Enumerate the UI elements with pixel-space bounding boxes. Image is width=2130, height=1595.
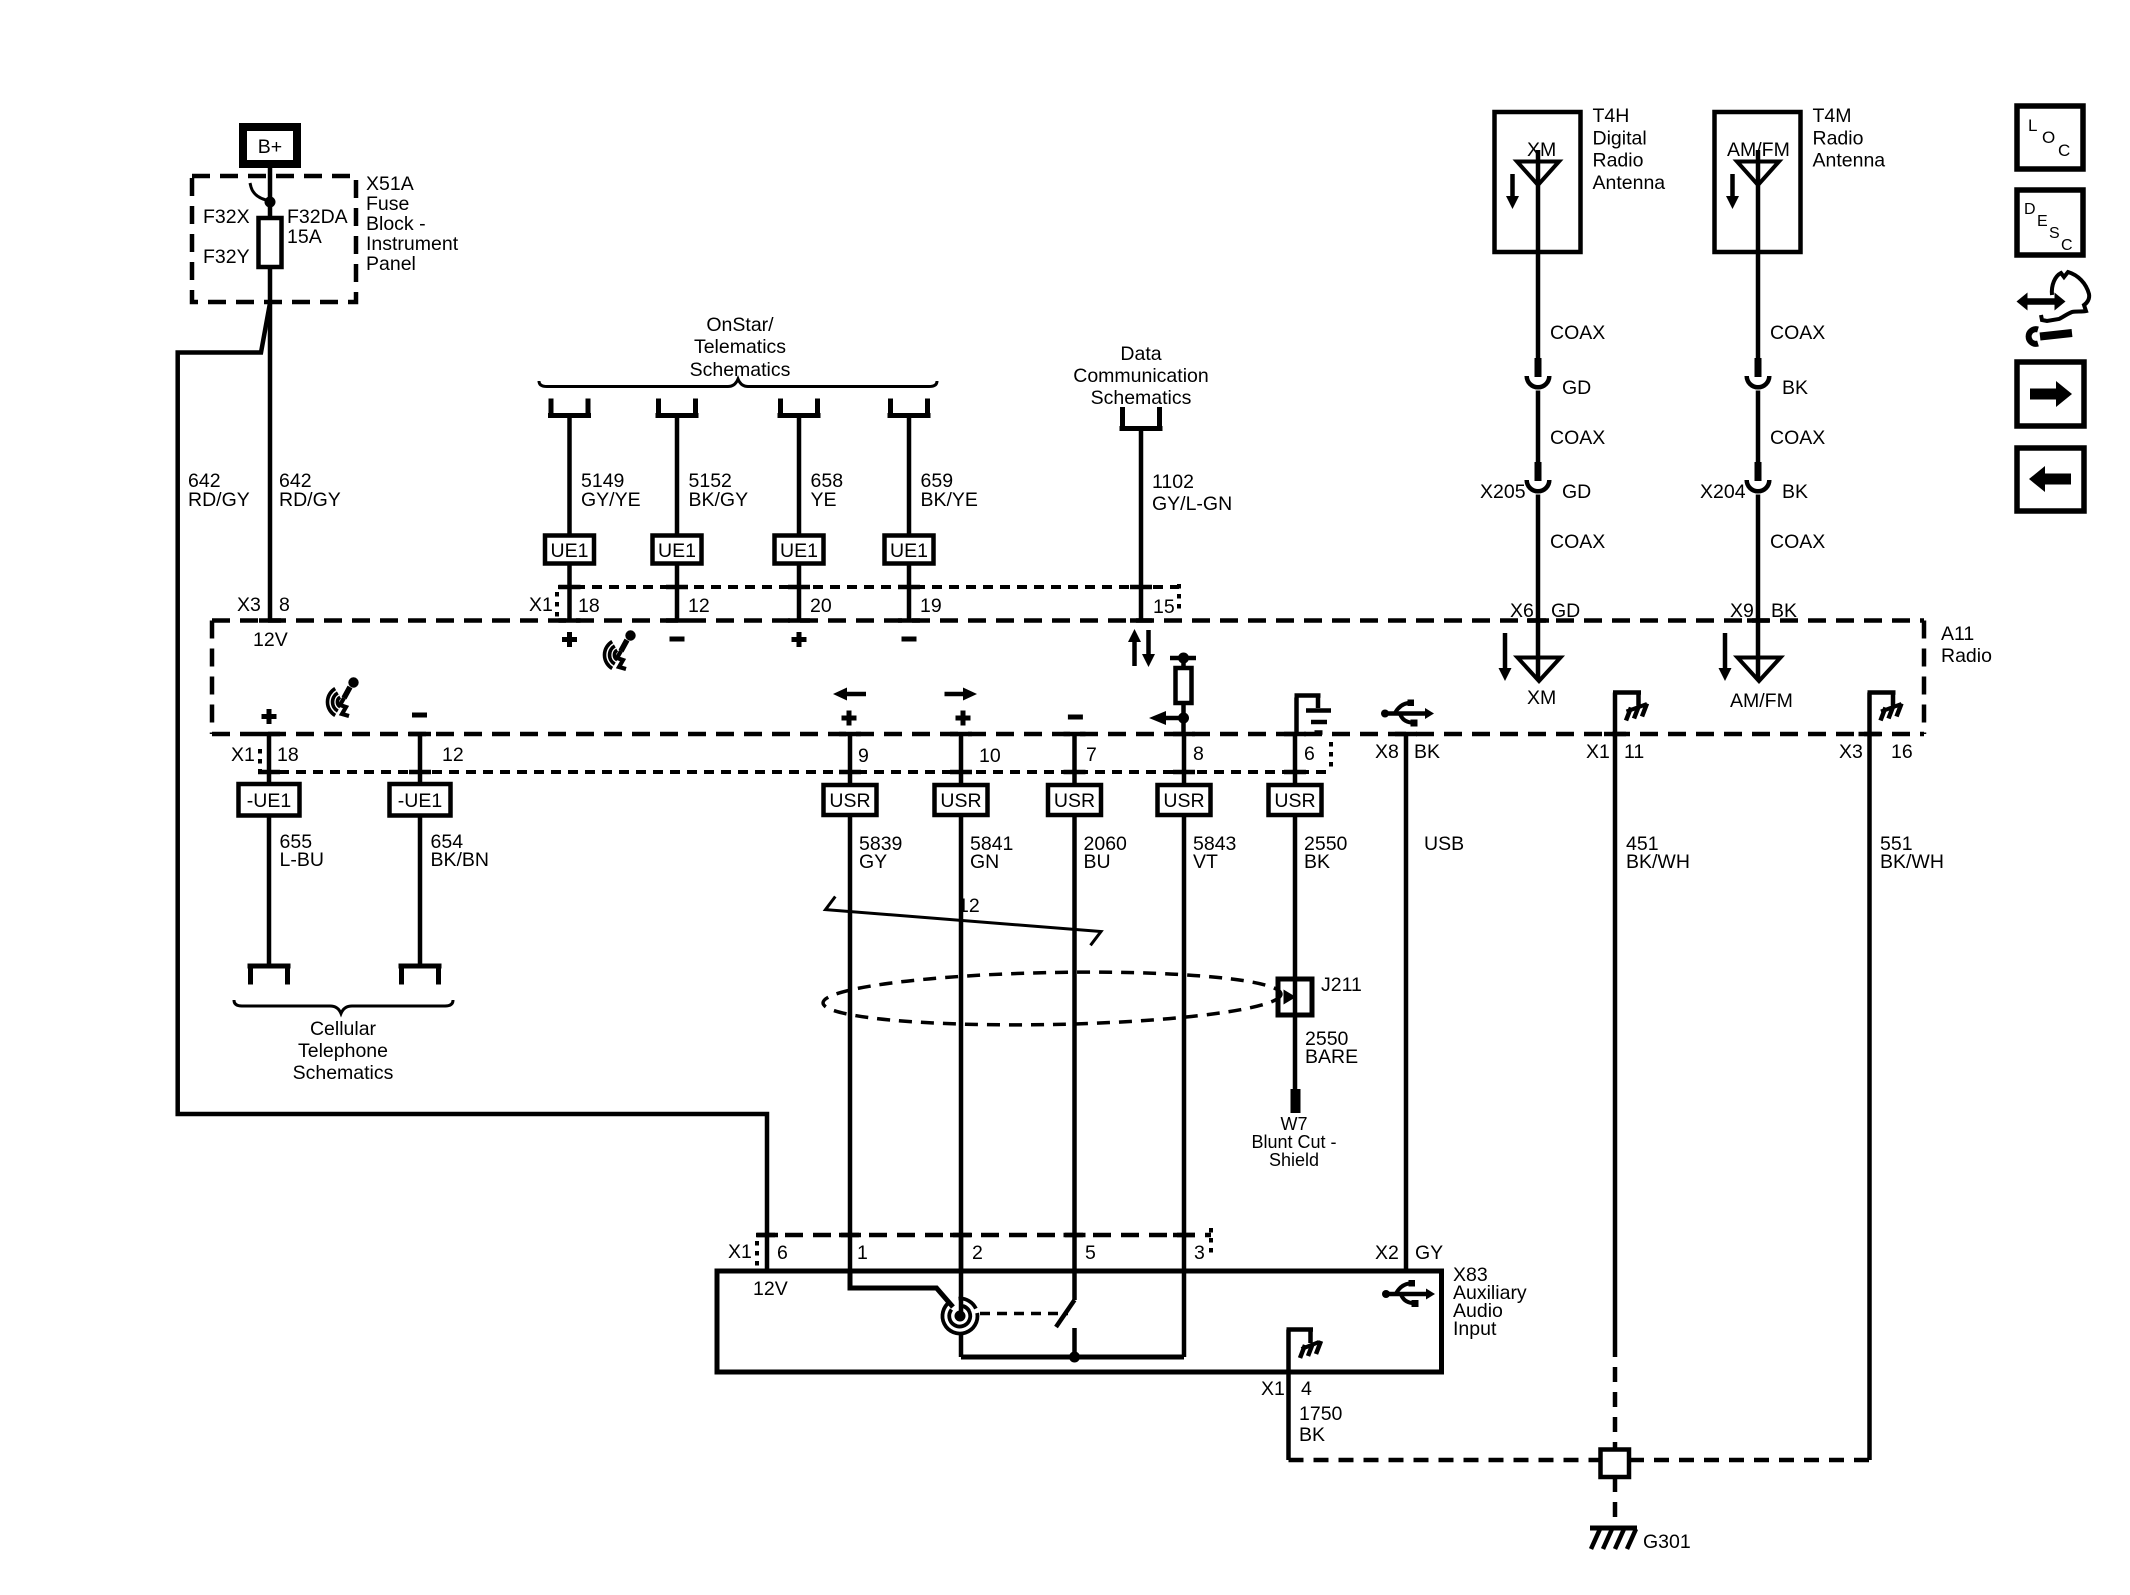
svg-text:Data: Data: [1120, 343, 1161, 365]
svg-text:BK: BK: [1304, 851, 1330, 873]
svg-text:GY/L-GN: GY/L-GN: [1152, 493, 1232, 515]
svg-text:15: 15: [1153, 596, 1175, 618]
pin X1 4 below aux box: [1261, 1378, 1312, 1400]
svg-text:COAX: COAX: [1770, 322, 1825, 344]
svg-text:BK/WH: BK/WH: [1880, 851, 1944, 873]
wire 5152 BK/GY: [677, 415, 748, 536]
wire 451 BK/WH (X1-11 to splice): [1615, 734, 1690, 1450]
wire 5839 GY: [850, 815, 902, 1235]
svg-text:COAX: COAX: [1550, 427, 1605, 449]
antenna symbol XM: [1517, 150, 1559, 252]
svg-text:G301: G301: [1643, 1531, 1691, 1553]
svg-text:BARE: BARE: [1305, 1046, 1358, 1068]
serial data up/down arrows (pin 15): [1128, 629, 1155, 667]
svg-text:5: 5: [1085, 1242, 1096, 1264]
svg-text:2: 2: [972, 1242, 983, 1264]
dashed ground run 1750 to splice: [1289, 1458, 1601, 1463]
inline coax connector (upper): [1527, 358, 1592, 399]
svg-text:19: 19: [920, 595, 942, 617]
aux internal bus wire: [961, 1271, 1184, 1363]
pin X6 GD: [1510, 600, 1580, 622]
svg-text:Telephone: Telephone: [298, 1040, 388, 1062]
ground splice: [1601, 1450, 1630, 1478]
coax wire middle segment: [1538, 391, 1605, 463]
svg-text:Schematics: Schematics: [293, 1062, 394, 1084]
wire radio pin to USR (2060): [1072, 734, 1077, 785]
telephone + polarity (X1-18 bottom): [262, 709, 277, 724]
svg-text:6: 6: [1304, 743, 1315, 765]
wire radio pin to USR (2550): [1293, 734, 1298, 785]
splice pack USR (5839): [824, 785, 877, 815]
svg-text:RD/GY: RD/GY: [188, 489, 250, 511]
svg-text:USB: USB: [1424, 833, 1464, 855]
antenna T4M AM/FM box: [1715, 112, 1801, 252]
junction node in fuse block: [250, 183, 276, 208]
svg-text:O: O: [2042, 128, 2055, 147]
aux internal chassis ground: [1287, 1330, 1322, 1373]
wire 5149 GY/YE: [570, 415, 641, 536]
USB wire X8 to aux X2: [1406, 734, 1464, 1272]
mic + polarity (OnStar 18): [562, 632, 577, 647]
svg-text:Telematics: Telematics: [694, 336, 786, 358]
splice pack -UE1: [239, 784, 300, 816]
svg-text:F32DA: F32DA: [287, 206, 348, 228]
wire 2550 BK: [1295, 815, 1348, 1089]
legend next arrow button: [2017, 362, 2084, 426]
svg-text:Blunt Cut -: Blunt Cut -: [1251, 1132, 1336, 1152]
svg-text:OnStar/: OnStar/: [706, 314, 774, 336]
svg-text:YE: YE: [811, 489, 837, 511]
svg-text:GY: GY: [1415, 1242, 1443, 1264]
svg-text:UE1: UE1: [551, 540, 589, 562]
svg-text:COAX: COAX: [1550, 531, 1605, 553]
svg-text:UE1: UE1: [780, 540, 818, 562]
pin labels X1 18 12 / 9 10 7 8 6 / X8 BK / X1 11 / X3 16: [231, 741, 1913, 767]
splice pack UE1: [775, 536, 824, 564]
XM antenna input symbol inside radio: [1518, 621, 1561, 710]
svg-text:X3: X3: [237, 594, 261, 616]
svg-text:E: E: [2037, 213, 2048, 230]
svg-text:X1: X1: [231, 744, 255, 766]
wire radio pin to USR (5843): [1182, 734, 1187, 785]
svg-text:X1: X1: [728, 1241, 752, 1263]
svg-text:XM: XM: [1527, 687, 1556, 709]
coax wire AM/FM antenna to radio: [1758, 252, 1825, 358]
pull-up resistor + data in arrow (pin 8): [1149, 653, 1196, 735]
wire UE1 to radio pin 12: [666, 564, 710, 621]
svg-text:8: 8: [279, 594, 290, 616]
svg-text:BK/BN: BK/BN: [431, 849, 490, 871]
wire 655 L-BU: [269, 816, 324, 967]
off-page connector to cellular telephone (655): [248, 966, 291, 985]
svg-text:Block -: Block -: [366, 213, 426, 235]
aux box X83: [717, 1271, 1442, 1372]
AM/FM antenna input symbol inside radio: [1730, 621, 1793, 713]
svg-text:9: 9: [858, 745, 869, 767]
twisted pair marker 12: [826, 895, 1102, 945]
aux USB symbol (X2): [1382, 1280, 1435, 1307]
splice pack USR (2060): [1048, 785, 1101, 815]
wire UE1 to radio pin 20: [788, 564, 832, 621]
svg-text:USR: USR: [1274, 790, 1315, 812]
wires radio to aux pins: [850, 1235, 1184, 1271]
inline coax connector (upper): [1747, 358, 1808, 399]
splice pack USR (5841): [935, 785, 988, 815]
svg-text:USR: USR: [1054, 790, 1095, 812]
wire radio pin to USR (5839): [848, 734, 853, 785]
legend LOC button: [2017, 106, 2083, 169]
wire radio to -UE1 (655): [267, 734, 272, 784]
svg-text:1102: 1102: [1152, 471, 1194, 493]
svg-text:BK/GY: BK/GY: [689, 489, 749, 511]
wire 5841 GN: [961, 815, 1013, 1235]
svg-text:BK: BK: [1782, 377, 1808, 399]
microphone icon (OnStar): [604, 630, 635, 669]
svg-text:F32X: F32X: [203, 206, 250, 228]
label X51A Fuse Block - Instrument Panel: [366, 173, 459, 275]
internal earth ground (pin 6 shield): [1295, 696, 1332, 735]
ground G301: [1590, 1528, 1691, 1553]
svg-text:GD: GD: [1562, 377, 1591, 399]
svg-text:COAX: COAX: [1550, 322, 1605, 344]
svg-text:Antenna: Antenna: [1813, 150, 1886, 172]
off-page connector to OnStar/Telematics (wire 5149): [548, 399, 591, 416]
fuse block X51A dashed outline: [192, 176, 356, 302]
svg-text:Fuse: Fuse: [366, 193, 409, 215]
XM input arrow: [1499, 633, 1512, 681]
headphone jack symbol: [942, 1299, 977, 1334]
svg-text:GY/YE: GY/YE: [581, 489, 641, 511]
svg-text:A11: A11: [1941, 623, 1974, 645]
wire 2060 BU: [1075, 815, 1128, 1235]
label X83 Auxiliary Audio Input: [1453, 1264, 1527, 1340]
brace OnStar/Telematics Schematics: [539, 314, 937, 387]
svg-text:L: L: [2028, 116, 2037, 135]
svg-text:12V: 12V: [753, 1278, 788, 1300]
svg-text:X204: X204: [1700, 481, 1746, 503]
svg-text:S: S: [2049, 225, 2060, 242]
svg-text:B+: B+: [258, 136, 282, 158]
svg-text:D: D: [2024, 201, 2036, 218]
pin X3 8 radio: [237, 594, 290, 651]
svg-text:6: 6: [777, 1242, 788, 1264]
svg-text:X205: X205: [1480, 481, 1526, 503]
off-page connector to Data Communication Schematics: [1120, 407, 1163, 429]
svg-text:USR: USR: [1163, 790, 1204, 812]
wire 1102 GY/L-GN: [1130, 428, 1232, 621]
svg-text:18: 18: [578, 595, 600, 617]
off-page connector to OnStar/Telematics (wire 658): [778, 399, 821, 416]
svg-text:Communication: Communication: [1073, 365, 1208, 387]
svg-text:Input: Input: [1453, 1318, 1497, 1340]
connector dotted row below radio: [258, 742, 1331, 776]
splice pack -UE1: [390, 784, 451, 816]
svg-text:7: 7: [1086, 744, 1097, 766]
svg-text:18: 18: [277, 744, 299, 766]
aux pin ticks: [756, 1233, 1195, 1238]
audio right out arrow (pin 10): [945, 688, 978, 726]
svg-text:X1: X1: [529, 594, 553, 616]
wire 1750 BK: [1289, 1372, 1343, 1460]
wire 2550 BARE: [1305, 1028, 1358, 1068]
splice pack USR (5843): [1158, 785, 1211, 815]
brace Cellular Telephone Schematics: [234, 1000, 453, 1084]
svg-text:BK: BK: [1782, 481, 1808, 503]
splice J211: [1278, 974, 1362, 1015]
svg-text:12: 12: [442, 744, 464, 766]
svg-text:J211: J211: [1321, 974, 1362, 996]
wire UE1 to radio pin 18: [559, 564, 600, 621]
coax wire XM antenna to radio: [1538, 252, 1605, 358]
svg-text:Instrument: Instrument: [366, 233, 459, 255]
svg-text:BU: BU: [1084, 851, 1111, 873]
svg-text:F32Y: F32Y: [203, 246, 250, 268]
radio A11 dashed box: [212, 621, 1992, 735]
svg-text:BK/YE: BK/YE: [921, 489, 978, 511]
audio - (pin 7): [1068, 715, 1083, 720]
wire 658 YE: [799, 415, 843, 536]
svg-text:10: 10: [979, 745, 1001, 767]
svg-text:USR: USR: [940, 790, 981, 812]
svg-text:X8: X8: [1375, 741, 1399, 763]
svg-text:-UE1: -UE1: [398, 790, 442, 812]
+ polarity (OnStar 20): [792, 632, 807, 647]
USB symbol (X8): [1381, 700, 1434, 727]
svg-text:4: 4: [1301, 1378, 1312, 1400]
svg-text:W7: W7: [1281, 1114, 1308, 1134]
svg-text:1750: 1750: [1299, 1403, 1343, 1425]
fuse F32DA 15A: [203, 206, 348, 268]
wire B+ to fuse: [268, 164, 273, 220]
svg-text:11: 11: [1624, 741, 1644, 763]
wire radio to -UE1 (654): [418, 734, 423, 784]
signal arrow XM: [1506, 174, 1519, 209]
svg-text:X1: X1: [1261, 1378, 1285, 1400]
antenna symbol AM/FM: [1737, 150, 1779, 252]
svg-text:L-BU: L-BU: [280, 849, 324, 871]
pin 15 radio X1: [1130, 596, 1175, 621]
svg-text:C: C: [2061, 237, 2073, 254]
svg-text:T4H: T4H: [1593, 105, 1630, 127]
wire 5843 VT: [1184, 815, 1236, 1235]
svg-text:Antenna: Antenna: [1593, 172, 1666, 194]
chassis ground X3-16 inside radio: [1868, 693, 1902, 735]
svg-text:RD/GY: RD/GY: [279, 489, 341, 511]
svg-text:Digital: Digital: [1593, 127, 1647, 149]
svg-text:8: 8: [1193, 743, 1204, 765]
svg-text:12V: 12V: [253, 629, 288, 651]
connector X1 dashed row (aux input): [728, 1228, 1211, 1267]
svg-text:GN: GN: [970, 851, 999, 873]
aux pin numbers 6 1 2 5 3 / X2 GY: [777, 1242, 1443, 1264]
telephone - polarity (X1-12 bottom): [412, 713, 427, 718]
legend DESC button: [2017, 190, 2083, 255]
shield ellipse (drain 2550): [823, 968, 1282, 1029]
dashed stub to G301: [1613, 1477, 1618, 1524]
svg-text:X3: X3: [1839, 741, 1863, 763]
svg-text:X2: X2: [1375, 1242, 1399, 1264]
inline coax connector X204: [1700, 462, 1808, 503]
svg-text:Panel: Panel: [366, 253, 416, 275]
svg-text:AM/FM: AM/FM: [1730, 690, 1793, 712]
svg-text:GY: GY: [859, 851, 887, 873]
off-page connector to OnStar/Telematics (wire 659): [888, 399, 931, 416]
label T4H Radio Antenna: [1593, 105, 1666, 194]
inline coax connector X205: [1480, 462, 1591, 503]
wire 654 BK/BN: [420, 816, 489, 967]
coax wire lower segment to radio pin: [1538, 495, 1605, 621]
splice pack UE1: [653, 536, 702, 564]
chassis ground X1-11 inside radio: [1613, 693, 1647, 735]
splice pack USR (2550): [1269, 785, 1322, 815]
svg-text:-UE1: -UE1: [247, 790, 291, 812]
detect switch (pin 5): [980, 1271, 1075, 1357]
AM/FM input arrow: [1719, 633, 1732, 681]
radio bottom pin ticks: [258, 732, 1881, 737]
pin X9 BK: [1730, 600, 1797, 622]
svg-text:1: 1: [857, 1242, 868, 1264]
wire UE1 to radio pin 19: [898, 564, 942, 621]
- polarity (OnStar 19): [902, 637, 917, 642]
off-page connector to cellular telephone (654): [399, 966, 442, 985]
svg-text:GD: GD: [1562, 481, 1591, 503]
connector X1 dotted row (radio top): [529, 584, 1179, 617]
svg-text:Radio: Radio: [1593, 150, 1644, 172]
svg-text:UE1: UE1: [890, 540, 928, 562]
legend diagnostic tool icon: [2017, 272, 2090, 344]
wire 642 RD/GY fuse to radio X3-8: [270, 267, 341, 621]
svg-text:XM: XM: [1527, 139, 1556, 161]
label Data Communication Schematics: [1073, 343, 1208, 409]
coax wire lower segment to radio pin: [1758, 495, 1825, 621]
mic - polarity (OnStar 12): [670, 637, 685, 642]
svg-text:15A: 15A: [287, 226, 322, 248]
splice pack UE1: [885, 536, 934, 564]
legend back arrow button: [2017, 448, 2084, 511]
antenna T4H XM box: [1495, 112, 1581, 252]
svg-text:C: C: [2058, 141, 2070, 160]
svg-text:Shield: Shield: [1269, 1150, 1319, 1170]
label T4M Radio Antenna: [1813, 105, 1886, 172]
svg-text:VT: VT: [1193, 851, 1218, 873]
audio left out arrow (pin 9): [833, 688, 866, 726]
svg-text:X1: X1: [1586, 741, 1610, 763]
microphone icon (cellular): [327, 677, 358, 716]
svg-text:X51A: X51A: [366, 173, 414, 195]
coax wire middle segment: [1758, 391, 1825, 463]
svg-text:UE1: UE1: [658, 540, 696, 562]
svg-text:Cellular: Cellular: [310, 1018, 377, 1040]
svg-text:USR: USR: [829, 790, 870, 812]
wire 642 RD/GY left branch to aux input: [178, 303, 767, 1272]
svg-text:COAX: COAX: [1770, 531, 1825, 553]
svg-text:Schematics: Schematics: [1091, 387, 1192, 409]
svg-text:Radio: Radio: [1813, 127, 1864, 149]
blunt cut W7 shield: [1251, 1089, 1336, 1170]
svg-text:12: 12: [688, 595, 710, 617]
svg-text:BK/WH: BK/WH: [1626, 851, 1690, 873]
svg-text:12: 12: [958, 895, 980, 917]
svg-text:3: 3: [1194, 1242, 1205, 1264]
jack sleeve wire (pin 2): [959, 1235, 964, 1357]
splice pack UE1: [545, 536, 594, 564]
svg-text:COAX: COAX: [1770, 427, 1825, 449]
battery feed B+: [243, 127, 297, 164]
off-page connector to OnStar/Telematics (wire 5152): [656, 399, 699, 416]
svg-text:Schematics: Schematics: [690, 359, 791, 381]
signal arrow AM/FM: [1726, 174, 1739, 209]
wire 551 BK/WH (X3-16 to splice): [1629, 734, 1944, 1460]
svg-text:16: 16: [1891, 741, 1913, 763]
svg-text:Radio: Radio: [1941, 645, 1992, 667]
svg-text:BK: BK: [1414, 741, 1440, 763]
wire radio pin to USR (5841): [959, 734, 964, 785]
svg-text:20: 20: [810, 595, 832, 617]
wire 659 BK/YE: [909, 415, 978, 536]
svg-text:BK: BK: [1299, 1424, 1325, 1446]
svg-text:T4M: T4M: [1813, 105, 1852, 127]
jack tip contact wire (pin 1): [850, 1271, 953, 1307]
